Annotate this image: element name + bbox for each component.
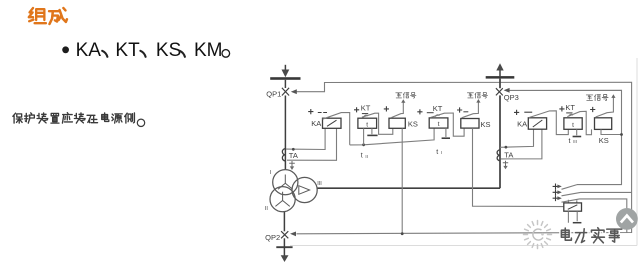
current transformer TA1 bbox=[282, 149, 285, 161]
svg-text:KM: KM bbox=[194, 40, 223, 61]
polarity + KS1 bbox=[384, 106, 389, 111]
right bus bar bbox=[486, 76, 515, 79]
svg-text:KS: KS bbox=[408, 120, 418, 129]
current transformer TA2 bbox=[497, 150, 500, 161]
svg-text:KT: KT bbox=[115, 40, 140, 61]
svg-text:KT: KT bbox=[361, 104, 371, 113]
svg-text:t: t bbox=[569, 138, 571, 145]
svg-text:II: II bbox=[365, 154, 367, 159]
wire to KT coils bbox=[350, 128, 434, 145]
arrow into QP3 bbox=[504, 88, 510, 93]
node KT1 bottom bbox=[362, 143, 365, 146]
wire TA2 secondary return bbox=[501, 129, 542, 159]
relay KT3 (time) bbox=[564, 118, 582, 130]
label to-signal 1 bbox=[396, 93, 416, 99]
relay KT2 (time) bbox=[429, 118, 448, 128]
KT1 minus terminal bbox=[371, 128, 373, 134]
label to-signal 3 bbox=[586, 95, 608, 101]
watermark logo starburst bbox=[524, 221, 552, 249]
KT2 minus terminal bbox=[445, 128, 447, 137]
polarity + KS2 bbox=[457, 107, 462, 112]
bullet text KA KT KS KM bbox=[76, 40, 223, 61]
KT3 minus terminal bbox=[576, 129, 578, 135]
left caption 保护装置应装在电源侧。 bbox=[13, 113, 135, 123]
svg-text:KA: KA bbox=[76, 40, 102, 61]
wire: link 3 to bottom bbox=[580, 199, 627, 233]
svg-text:I: I bbox=[270, 170, 272, 176]
svg-text:t: t bbox=[438, 121, 440, 128]
node line B bbox=[620, 133, 623, 136]
switching link 2 bbox=[553, 189, 559, 195]
breaker QP1 (open switch x) bbox=[282, 88, 289, 96]
left bus bar bbox=[270, 77, 300, 80]
watermark text 电力实事 bbox=[561, 228, 621, 243]
switching link 1 bbox=[553, 184, 559, 190]
relay KM bbox=[568, 200, 576, 203]
svg-text:t: t bbox=[436, 149, 438, 156]
heading text 组成 (orange) bbox=[29, 8, 67, 24]
transformer winding I bbox=[273, 170, 298, 195]
TA1 ground arrow bbox=[289, 161, 295, 167]
node TA1 bbox=[292, 148, 295, 151]
polarity + KT1 bbox=[354, 107, 359, 112]
polarity + KA1 bbox=[308, 109, 313, 114]
wire TA2 secondary top bbox=[500, 129, 534, 147]
svg-text:I: I bbox=[441, 150, 442, 155]
svg-text:t: t bbox=[572, 122, 574, 129]
svg-text:KT: KT bbox=[433, 104, 443, 113]
right bus vertical (thick) bbox=[317, 79, 500, 189]
svg-text:KS: KS bbox=[481, 120, 491, 129]
KS1 long drop to bottom wire bbox=[401, 128, 403, 233]
polarity + KA3 bbox=[514, 110, 519, 115]
svg-text:III: III bbox=[573, 139, 577, 144]
svg-text:KS: KS bbox=[599, 136, 609, 145]
svg-text:TA: TA bbox=[504, 151, 513, 160]
svg-text:QP1: QP1 bbox=[266, 89, 281, 98]
wire: QP1 top run, right drop and bottom return bbox=[296, 82, 632, 234]
left bus vertical bbox=[284, 80, 285, 256]
svg-text:KA: KA bbox=[517, 120, 527, 129]
back-to-top button bbox=[616, 208, 638, 230]
svg-text:KT: KT bbox=[565, 103, 575, 112]
svg-text:II: II bbox=[265, 206, 269, 212]
relay KS3 (signal) bbox=[595, 118, 612, 130]
scan border of figure bbox=[290, 58, 637, 246]
svg-text:KS: KS bbox=[156, 40, 181, 61]
KT1 leg to node bbox=[363, 128, 365, 145]
node bottom wire bbox=[401, 232, 404, 235]
polarity + KS3 bbox=[590, 107, 595, 112]
KT3 contact to KS3 bbox=[569, 114, 574, 116]
outgoing feeder bar and arrow below QP2 bbox=[276, 246, 292, 248]
svg-text:t: t bbox=[366, 121, 368, 128]
KS2 drop to KM coil bbox=[473, 128, 564, 207]
polarity + KT2 bbox=[417, 109, 422, 114]
svg-text:III: III bbox=[317, 181, 322, 187]
polarity + KT3 bbox=[559, 106, 564, 111]
KT1 contact to KS1 bbox=[364, 115, 369, 117]
transformer winding III (delta) bbox=[292, 177, 317, 202]
bullet dot bbox=[62, 46, 69, 53]
relay KS2 (signal) bbox=[461, 119, 479, 129]
wire TA1 secondary top bbox=[286, 128, 325, 149]
caption full stop bbox=[137, 119, 144, 126]
contact KS3 to signal bbox=[596, 98, 614, 118]
ideographic full stop bbox=[222, 50, 230, 58]
breaker QP2 (open switch x) bbox=[281, 231, 288, 238]
relay KS1 (signal) bbox=[389, 118, 405, 128]
label to-signal 2 bbox=[467, 93, 487, 99]
contact KS1 to signal bbox=[391, 103, 403, 118]
svg-text:QP2: QP2 bbox=[265, 233, 280, 242]
wire: link 2 to right drop bbox=[581, 191, 632, 193]
svg-text:QP3: QP3 bbox=[504, 93, 519, 102]
svg-text:TA: TA bbox=[289, 151, 298, 160]
contact KA3 and drop to KT3 bbox=[529, 111, 569, 135]
arrow into QP1 bbox=[291, 89, 297, 94]
KM legs bbox=[568, 211, 577, 223]
relay KA1 bbox=[323, 118, 342, 128]
TA2 ground arrow bbox=[503, 161, 508, 167]
KS3 right leg to node bbox=[601, 129, 622, 134]
feeder arrow (right bus, up) bbox=[499, 70, 501, 77]
KT2 contact to KS2 bbox=[435, 115, 440, 117]
breaker QP3 (open switch x) bbox=[496, 88, 503, 95]
relay KT1 (time) bbox=[358, 118, 377, 128]
svg-text:KA: KA bbox=[311, 119, 321, 128]
relay KA3 bbox=[528, 118, 546, 129]
feeder arrow (incoming, left bus) bbox=[284, 65, 286, 70]
wire: QP3 run to link 1 bbox=[509, 90, 622, 184]
contact KA1 and drop bbox=[322, 113, 349, 145]
node TA2 bbox=[505, 146, 508, 149]
arrow into QP2 bbox=[290, 232, 296, 237]
svg-text:t: t bbox=[361, 153, 363, 160]
ideographic commas bbox=[102, 51, 185, 57]
contact KS2 to signal bbox=[462, 102, 479, 118]
transformer winding II bbox=[270, 187, 295, 212]
switching link 3 bbox=[553, 195, 559, 201]
wire TA1 secondary return bbox=[287, 128, 337, 160]
